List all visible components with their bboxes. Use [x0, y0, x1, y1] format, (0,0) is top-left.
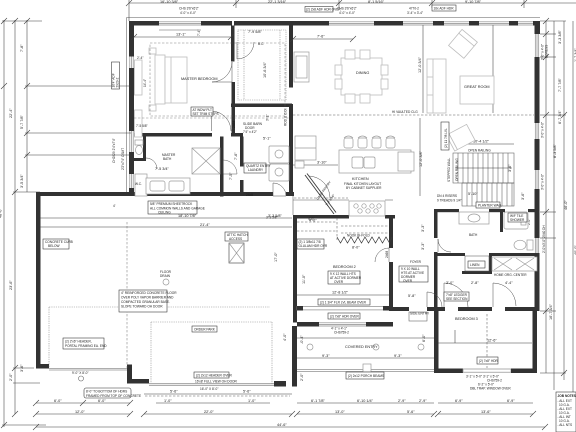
svg-text:7'-6": 7'-6" [317, 35, 325, 39]
svg-text:22'-4": 22'-4" [9, 108, 13, 118]
svg-text:DN 4 RISERS: DN 4 RISERS [437, 194, 457, 198]
label linen boxed [468, 261, 485, 268]
dim line right set [540, 21, 573, 415]
note 7x8 ledger box [444, 292, 469, 301]
svg-text:14'-4": 14'-4" [143, 79, 147, 87]
flue fireplace [294, 52, 309, 82]
svg-text:4'-0" x 4'-0": 4'-0" x 4'-0" [180, 11, 196, 15]
svg-text:5'-7 7/8": 5'-7 7/8" [20, 114, 24, 129]
wall northeast corner [533, 21, 540, 34]
note porch window text [331, 327, 349, 335]
svg-text:W.C.: W.C. [135, 182, 142, 186]
wall hall south of stairs [434, 209, 459, 212]
note chase wall top [179, 7, 199, 16]
bed master [155, 55, 187, 104]
svg-text:OVER POLY VAPOR BARRIER AND: OVER POLY VAPOR BARRIER AND [121, 296, 174, 300]
dim line interior verticals [420, 25, 493, 196]
wall bed3 north east part [505, 307, 537, 311]
svg-text:22'-1 3/16": 22'-1 3/16" [268, 0, 287, 4]
svg-text:FRAMED FROM TOP OF CONCRETE: FRAMED FROM TOP OF CONCRETE [86, 394, 141, 398]
svg-text:16x ADF HDR: 16x ADF HDR [434, 7, 455, 11]
note lvl beam boxed rotated [441, 122, 449, 150]
dim line top row 1 [129, 0, 576, 21]
dim text 12'-6" bedroom3 [438, 330, 532, 343]
svg-text:NOOK BI-FOLD: NOOK BI-FOLD [347, 234, 371, 238]
svg-text:10'-6 3/4": 10'-6 3/4" [263, 61, 267, 78]
wall foyer/bed3 north continues [458, 307, 492, 311]
wall kitchen south east of range [385, 215, 395, 219]
wall front porch face east segment [366, 322, 393, 327]
svg-text:BEDROOM 2: BEDROOM 2 [333, 265, 356, 269]
svg-text:21'-4": 21'-4" [200, 223, 210, 227]
hall to garage door arc [223, 160, 237, 174]
svg-text:ORDER PARK: ORDER PARK [194, 328, 216, 332]
wall home org north [492, 253, 537, 256]
svg-text:OPEN RAILING: OPEN RAILING [468, 149, 491, 153]
great room chair rotated [449, 29, 478, 58]
linen closet inner [465, 256, 489, 271]
svg-text:SEE SECTION: SEE SECTION [446, 297, 468, 301]
svg-text:5'-8": 5'-8" [408, 294, 416, 298]
wall west exterior mid [129, 68, 134, 131]
svg-text:CHS759-2: CHS759-2 [334, 331, 349, 335]
laundry door arc [273, 183, 286, 196]
svg-text:7'-7 7/8": 7'-7 7/8" [558, 77, 562, 92]
svg-text:6'-0": 6'-0" [54, 399, 62, 403]
dim line left outer [2, 20, 46, 427]
wall bedroom2 south window band [297, 307, 389, 310]
pantry door arc [309, 176, 330, 198]
porch post center [363, 364, 371, 372]
svg-text:-0'-4": -0'-4" [300, 335, 304, 344]
svg-text:8'-1 5/16": 8'-1 5/16" [368, 0, 385, 4]
washer dryer [269, 146, 289, 181]
svg-text:13'-6": 13'-6" [481, 410, 491, 414]
svg-text:8'-0": 8'-0" [352, 246, 360, 250]
note 7x8 hdr box bed3 [477, 357, 499, 364]
wall bedroom3 east [533, 311, 538, 373]
garage apron dashed [145, 395, 290, 397]
island sink double [352, 157, 375, 168]
window stair east egress [535, 123, 538, 139]
label master bath [162, 153, 176, 161]
svg-text:2'-9": 2'-9" [398, 399, 406, 403]
bar stool 1 [344, 136, 353, 148]
svg-text:12'-6": 12'-6" [487, 339, 497, 343]
svg-text:9'-10 7/8": 9'-10 7/8" [465, 0, 482, 4]
wall west exterior lower [129, 188, 134, 196]
label attic hatch boxed [225, 232, 248, 241]
svg-text:CH2929 2'4"x7'4": CH2929 2'4"x7'4" [112, 138, 116, 163]
door side entry gap then wall [427, 307, 445, 311]
header block great room 2 [469, 21, 479, 26]
svg-text:2'2"x7'4" CSMT: 2'2"x7'4" CSMT [121, 148, 125, 170]
svg-text:6'-1 7/8": 6'-1 7/8" [311, 399, 326, 403]
stair arrow [455, 167, 512, 169]
wall linen east [489, 253, 492, 273]
svg-text:GREAT ROOM: GREAT ROOM [464, 85, 490, 89]
wall interior closet divider lower stub [232, 82, 236, 136]
svg-text:BY CABINET SUPPLIER: BY CABINET SUPPLIER [346, 186, 382, 190]
svg-text:- ALL NTS: - ALL NTS [558, 423, 573, 427]
svg-text:ROD & C.O.: ROD & C.O. [284, 108, 288, 126]
door master bath arc [212, 111, 232, 131]
svg-text:24x8: 24x8 [246, 193, 253, 197]
note garage door size [72, 371, 89, 381]
garage center dashed line [126, 222, 128, 368]
window great room north 2 [444, 22, 469, 25]
master wc toilet [135, 140, 143, 155]
svg-text:BATH: BATH [163, 157, 172, 161]
svg-text:44'-6": 44'-6" [277, 423, 287, 427]
note 4770 window top [407, 7, 423, 16]
wall interior master closet divider [231, 26, 235, 62]
dim line master bedroom 13'-1" [131, 34, 234, 40]
header block great room 3 [509, 21, 518, 26]
note 16x adf hdr box topright [432, 5, 456, 11]
svg-text:46'-0": 46'-0" [564, 200, 568, 210]
ref label box [295, 161, 304, 168]
wall bedroom2 east [389, 215, 393, 248]
range with burners [349, 201, 385, 216]
svg-text:9'-3": 9'-3" [394, 354, 402, 358]
wall north exterior segment B [201, 21, 232, 26]
dim text 3'-10" kitchen [293, 164, 338, 166]
hall shower [504, 212, 528, 229]
svg-text:9 TREADS 9 1/4": 9 TREADS 9 1/4" [437, 199, 462, 203]
svg-text:2929-2: 2929-2 [116, 77, 120, 87]
window great room north 3 [479, 22, 509, 25]
wall wc south stub [134, 158, 146, 161]
dashed center line bedroom3 [486, 314, 488, 368]
master bath west cabinet [135, 174, 147, 196]
svg-text:3'-3 3/8": 3'-3 3/8" [558, 29, 562, 44]
note garage slab box [119, 290, 177, 312]
svg-text:3'-3": 3'-3" [421, 224, 425, 232]
wall laundry west [240, 137, 244, 167]
window master bedroom north [159, 22, 201, 25]
closet rod dashed bedroom2 top [341, 226, 389, 233]
svg-text:7'-5": 7'-5" [229, 172, 233, 180]
wall bedroom3 south east [511, 369, 537, 374]
dashed cabinet line kitchen [294, 197, 348, 199]
svg-text:DINING: DINING [356, 71, 369, 75]
svg-text:SET TRIM STEPS: SET TRIM STEPS [193, 112, 219, 116]
window bedroom2 front [319, 323, 366, 326]
svg-text:7'-6": 7'-6" [234, 152, 238, 160]
svg-text:2'-9": 2'-9" [419, 399, 427, 403]
svg-text:7'-9 5/8": 7'-9 5/8" [248, 30, 263, 34]
bar stool 2 [358, 136, 367, 148]
svg-text:2'-8": 2'-8" [471, 281, 479, 285]
eave line north [127, 17, 541, 19]
wall mud hall divider [220, 137, 224, 197]
svg-text:4'-0": 4'-0" [308, 217, 314, 221]
header block dining window [374, 21, 403, 26]
nightstand upper [149, 48, 156, 54]
master closet shelves dotted [238, 30, 286, 100]
svg-text:SHOWER: SHOWER [510, 218, 525, 222]
window great room north 4 [518, 22, 533, 25]
note glulam hdr box [297, 239, 328, 249]
eave line west [126, 18, 128, 193]
svg-text:FOYER: FOYER [410, 260, 422, 264]
svg-text:B.C.: B.C. [258, 42, 264, 46]
wall north exterior segment A [129, 21, 159, 26]
svg-text:7'-8": 7'-8" [20, 44, 24, 52]
svg-text:2'-0"x3'-0" 2940 DH: 2'-0"x3'-0" 2940 DH [542, 225, 546, 253]
svg-text:OVER: OVER [334, 280, 344, 284]
wall kitchen south [293, 215, 349, 219]
note 2x8 hdr box top [305, 7, 341, 13]
dim line bottom rows [36, 394, 545, 427]
wall garage north east stub [286, 192, 294, 196]
stoop side entry [409, 312, 427, 321]
wall garage east lower [292, 326, 297, 387]
wc door arc [146, 158, 157, 169]
dim line left inner [25, 20, 131, 192]
dashed vaulted ceiling line [134, 115, 534, 118]
svg-text:HOME ORG. CENTER: HOME ORG. CENTER [494, 273, 527, 277]
wall west exterior upper [129, 26, 134, 57]
note bedroom2 dormer box [328, 271, 362, 284]
note bed3 window text [466, 375, 511, 391]
porch slab edge [297, 370, 434, 372]
sill garage door 1 [49, 369, 127, 370]
svg-text:5'-6": 5'-6" [243, 390, 251, 394]
svg-text:3'-5 3/4": 3'-5 3/4" [20, 173, 24, 188]
svg-text:3'-4" x 3'-4": 3'-4" x 3'-4" [407, 11, 423, 15]
svg-text:4'-0" x 4'-0": 4'-0" x 4'-0" [339, 11, 355, 15]
svg-text:13'-1": 13'-1" [176, 33, 186, 37]
svg-text:2468: 2468 [232, 121, 236, 128]
svg-text:2'-0": 2'-0" [300, 373, 304, 381]
window wc west [130, 174, 133, 188]
svg-text:CHS 3'6"x6'2": CHS 3'6"x6'2" [337, 7, 357, 11]
window bath east [535, 238, 538, 253]
wall east exterior segment 2 [535, 57, 540, 123]
svg-text:OVER: OVER [403, 279, 413, 283]
kitchen counters [293, 196, 393, 215]
svg-text:7'4" x 4'2": 7'4" x 4'2" [243, 130, 257, 134]
svg-text:ACCESS: ACCESS [229, 237, 242, 241]
tray ceiling dashed master [150, 43, 285, 116]
svg-text:CHS 3'6"x6'2": CHS 3'6"x6'2" [179, 7, 199, 11]
svg-text:16'-7 3/4": 16'-7 3/4" [549, 303, 553, 320]
svg-text:STEPPED WALL: STEPPED WALL [447, 157, 451, 182]
svg-text:SIDE ENTRY: SIDE ENTRY [410, 312, 430, 316]
svg-text:6'-10 1/4": 6'-10 1/4" [357, 399, 374, 403]
svg-text:(2) 7x8" HDR OVER: (2) 7x8" HDR OVER [330, 315, 359, 319]
window great room east [535, 34, 538, 57]
svg-text:(2) 7x8" HDR: (2) 7x8" HDR [479, 359, 499, 363]
door bedroom2 arc [375, 248, 389, 262]
sill garage door 2 [149, 384, 274, 386]
wall bath north east segment [528, 209, 535, 212]
svg-text:BEDROOM 3: BEDROOM 3 [455, 317, 478, 321]
note beam over box bedroom2 [318, 299, 370, 305]
svg-text:48'-0": 48'-0" [0, 208, 3, 218]
svg-text:3'-0" x 4'-0": 3'-0" x 4'-0" [541, 122, 545, 138]
svg-text:4770-2: 4770-2 [409, 7, 419, 11]
wall north exterior segment C [234, 21, 329, 26]
wall wc east [143, 137, 146, 161]
wall linen south [462, 271, 492, 274]
note foyer dormer box [399, 266, 428, 283]
wall dining west / kitchen west [289, 26, 293, 88]
svg-text:10'-4 1/2": 10'-4 1/2" [473, 140, 490, 144]
svg-text:16'-0" X 8'-0": 16'-0" X 8'-0" [200, 387, 218, 391]
wall bath/linen divider [437, 253, 465, 256]
wall garage south west corner [36, 364, 49, 369]
svg-text:4'-0": 4'-0" [283, 333, 287, 341]
tick marks right [543, 18, 567, 376]
tick marks top [126, 0, 527, 6]
dim line left mid [13, 20, 40, 414]
svg-text:1'-0": 1'-0" [164, 399, 172, 403]
window great room north 1 [403, 22, 433, 25]
wall kitchen west lower [289, 104, 293, 196]
svg-text:8'-3 5/8": 8'-3 5/8" [553, 143, 557, 158]
svg-text:BATH: BATH [469, 233, 478, 237]
side entry door arc [427, 292, 442, 307]
svg-text:6'-9": 6'-9" [507, 399, 515, 403]
note sheetrock box [148, 201, 205, 215]
svg-text:16'x8' FULL VIEW OH DOOR: 16'x8' FULL VIEW OH DOOR [195, 380, 238, 384]
wall hall west [434, 212, 438, 238]
svg-text:3'-6": 3'-6" [521, 192, 525, 200]
master bath vanity double [146, 178, 190, 194]
door master bedroom arc [212, 62, 232, 82]
window bedroom3 south [463, 369, 511, 372]
note hdr bottom box [84, 388, 141, 398]
svg-text:5/8" PREMIUM SHEETROCK: 5/8" PREMIUM SHEETROCK [150, 202, 193, 206]
svg-text:8'-0" TO BOTTOM OF HDRS: 8'-0" TO BOTTOM OF HDRS [86, 390, 127, 394]
header block great room [433, 21, 444, 26]
svg-text:(2) 2x12 HEADER OVER: (2) 2x12 HEADER OVER [196, 374, 232, 378]
svg-text:2'-0": 2'-0" [9, 373, 13, 381]
svg-text:5'-6": 5'-6" [170, 390, 178, 394]
fridge [295, 136, 316, 160]
great room rug [460, 76, 494, 104]
wall laundry west top stub [231, 133, 243, 137]
svg-text:12'-0": 12'-0" [75, 410, 85, 414]
svg-text:LAUNDRY: LAUNDRY [248, 168, 264, 172]
svg-text:3'-3": 3'-3" [421, 242, 425, 250]
svg-text:(2) 2'x6" HEADER,: (2) 2'x6" HEADER, [65, 340, 92, 344]
wall east exterior upper [535, 33, 540, 35]
note concrete curb box [43, 239, 73, 249]
svg-text:MASTER BEDROOM: MASTER BEDROOM [181, 77, 218, 81]
svg-text:17'-0": 17'-0" [274, 252, 278, 262]
note porch beams box [346, 372, 384, 379]
svg-text:7'-5 5/8": 7'-5 5/8" [136, 124, 148, 128]
wall bedroom3 west [434, 311, 439, 373]
svg-text:12'-0 3/4": 12'-0 3/4" [418, 56, 422, 73]
wall bedroom2 west [293, 219, 297, 323]
svg-text:6'-0": 6'-0" [98, 399, 106, 403]
wall garage door step [127, 365, 149, 384]
svg-text:3'-0" x 4'-0": 3'-0" x 4'-0" [541, 174, 545, 190]
note window label west upper boxed [112, 62, 120, 89]
wall bedroom2 east lower [389, 262, 393, 311]
wall garage west [36, 196, 41, 368]
wall bath wc divider [500, 212, 503, 232]
kitchen island [339, 150, 414, 173]
hall toilet [514, 240, 533, 250]
svg-text:LINEN: LINEN [470, 263, 480, 267]
door garage entry gap [273, 192, 286, 196]
svg-text:3'-3 5/8": 3'-3 5/8" [266, 216, 278, 220]
svg-text:1'-0": 1'-0" [248, 399, 256, 403]
wall west exterior at wc [129, 152, 134, 174]
svg-text:GLULAM HDR OVR: GLULAM HDR OVR [299, 244, 328, 248]
svg-text:CEILING: CEILING [158, 211, 171, 215]
dim lines porch [297, 338, 434, 358]
window master bath west [130, 131, 133, 152]
svg-text:DRAIN: DRAIN [160, 274, 171, 278]
closet2 dashed shelf [297, 218, 337, 240]
svg-text:DBL TRAP. WINDOW OVER: DBL TRAP. WINDOW OVER [470, 387, 511, 391]
bath door arc [438, 239, 451, 252]
bar stool 4 [386, 136, 395, 148]
dim line dining 7'-6" [290, 36, 356, 42]
dining table [335, 50, 388, 103]
svg-text:3'-6": 3'-6" [20, 364, 24, 372]
wall east exterior segment 4 [535, 189, 540, 238]
note wf tile shower box [508, 213, 527, 222]
note dn risers [437, 194, 462, 203]
wall side entry south [393, 307, 409, 311]
svg-text:COMPACTED GRANULAR BASE.: COMPACTED GRANULAR BASE. [121, 300, 170, 304]
svg-text:PORTAL FRAMING EA. END: PORTAL FRAMING EA. END [65, 344, 107, 348]
wall east exterior segment 5 [535, 253, 540, 311]
wall east exterior segment 3 [535, 139, 540, 170]
nightstand lower [149, 105, 156, 111]
wall garage north [36, 192, 273, 196]
svg-text:13'-0": 13'-0" [335, 410, 345, 414]
svg-text:5'-6": 5'-6" [407, 410, 415, 414]
note order park box [192, 326, 217, 332]
svg-text:SLOPE TOWARD OH DOOR: SLOPE TOWARD OH DOOR [121, 305, 163, 309]
wall garage south east pillar [274, 381, 286, 387]
svg-text:PLANTER WALL: PLANTER WALL [478, 204, 502, 208]
svg-text:KITCHEN: KITCHEN [352, 177, 369, 181]
svg-text:9'-0" X 8'-0": 9'-0" X 8'-0" [72, 371, 89, 375]
svg-text:16'-10 3/8": 16'-10 3/8" [160, 0, 179, 4]
note chs window top [337, 7, 357, 16]
tick marks bottom [33, 400, 548, 430]
svg-text:3'-10": 3'-10" [317, 161, 327, 165]
note hdr over box bedroom2 [328, 313, 360, 319]
dim line garage top interior [40, 218, 292, 227]
svg-text:OPEN RAILING: OPEN RAILING [455, 158, 459, 181]
wall bedroom3 south west [434, 369, 463, 374]
stairs lower run [462, 183, 514, 206]
stairs treads [453, 153, 514, 183]
window seat master north [159, 29, 201, 31]
svg-text:7'-4": 7'-4" [197, 30, 201, 36]
svg-text:EGRESS: EGRESS [545, 45, 549, 58]
bar stool 3 [372, 136, 381, 148]
porch columns [307, 344, 424, 350]
job notes panel [556, 392, 576, 432]
svg-text:(2) 11 7/8 LVL: (2) 11 7/8 LVL [444, 128, 448, 148]
label kitchen [344, 177, 382, 190]
svg-text:(2) 1 3/4" FLR LVL BEAM OVER: (2) 1 3/4" FLR LVL BEAM OVER [320, 301, 367, 305]
svg-text:22'-0": 22'-0" [204, 410, 214, 414]
svg-text:6'-0": 6'-0" [422, 334, 426, 342]
